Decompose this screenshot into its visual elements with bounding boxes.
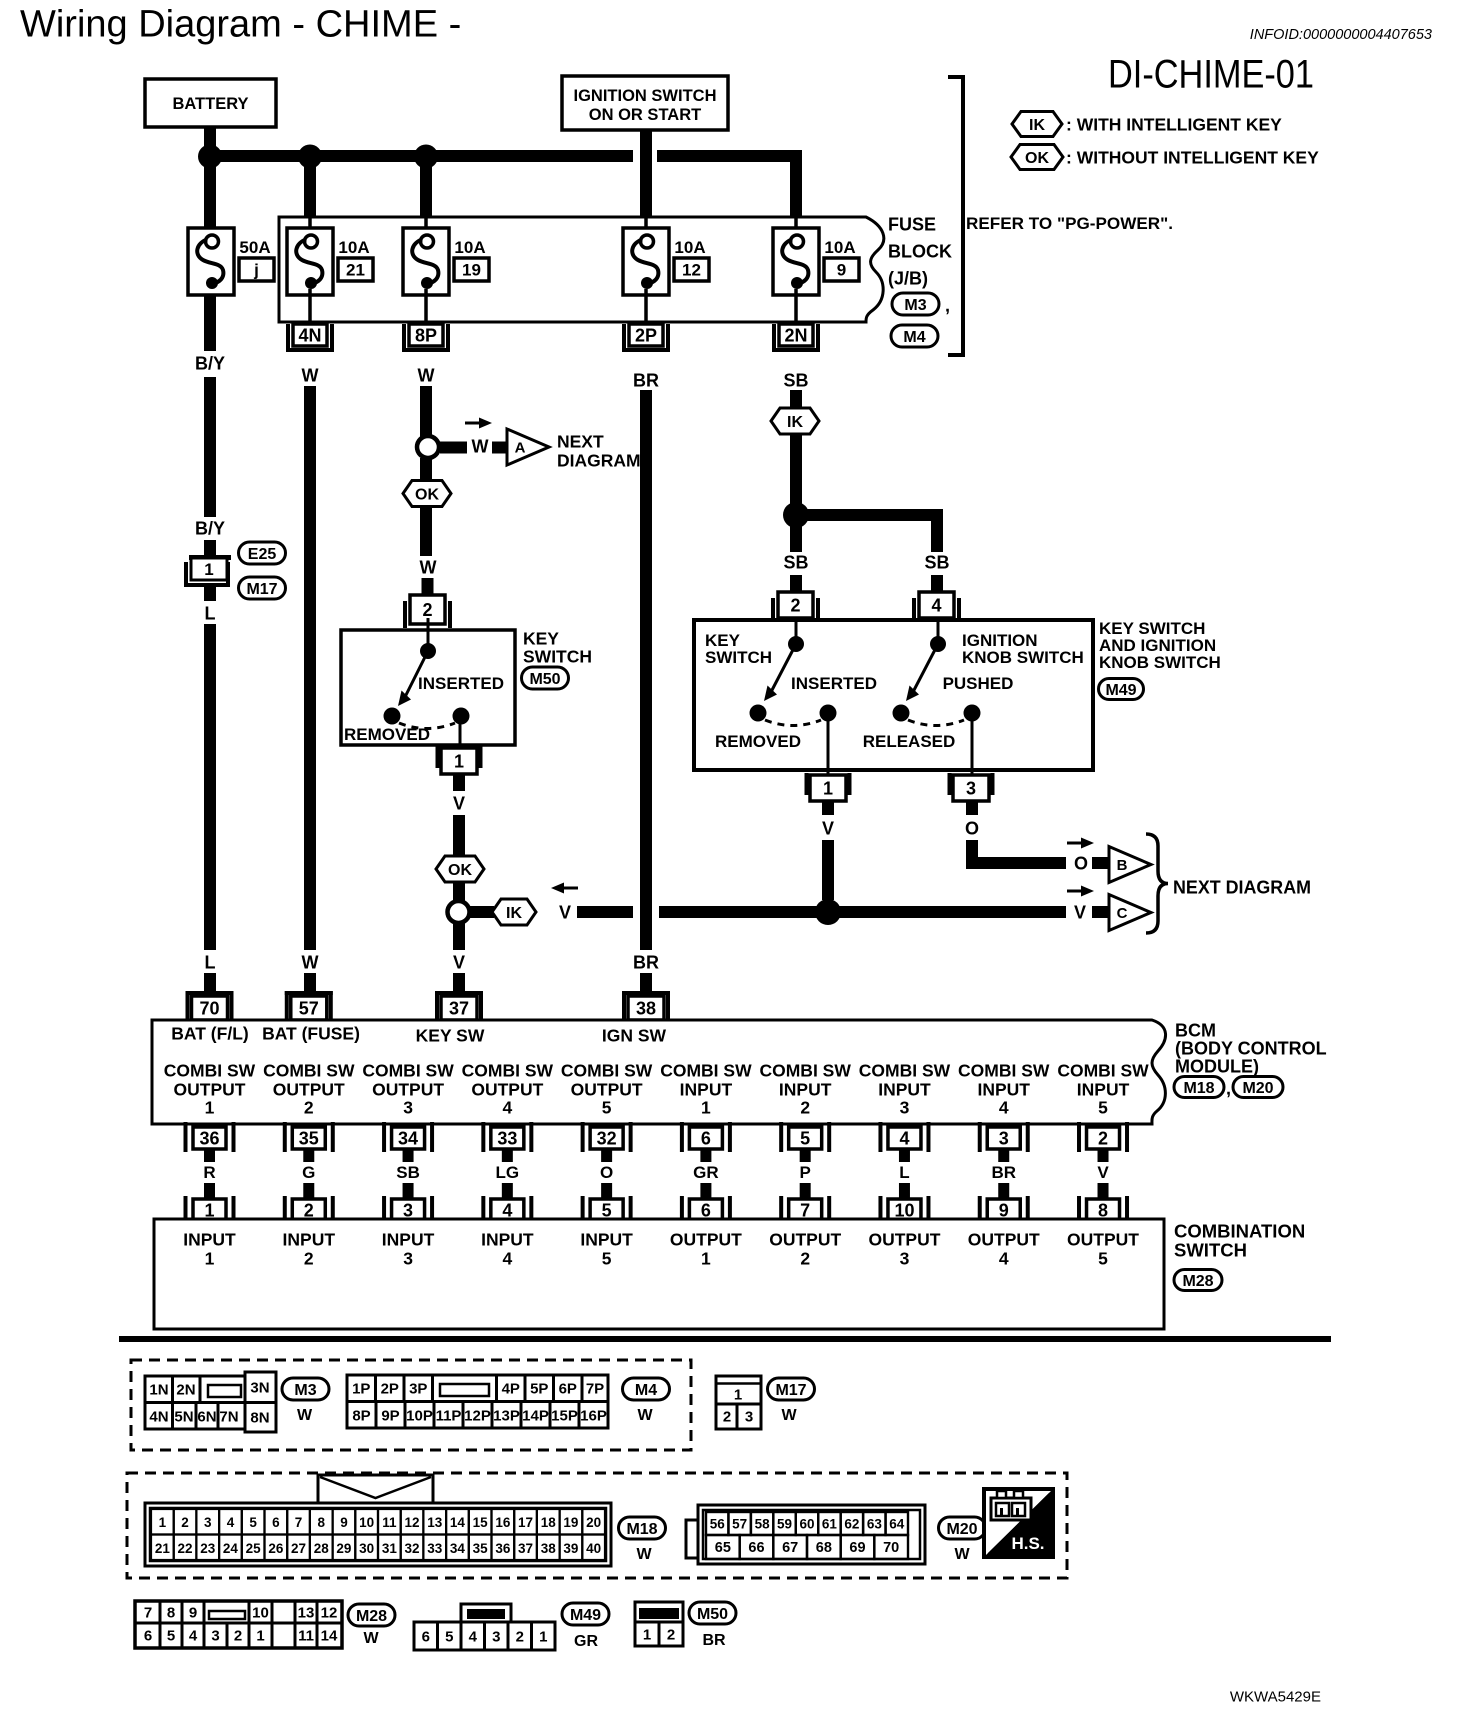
wire V horizontal left segment <box>577 906 633 918</box>
wire IK to junction <box>790 433 802 515</box>
junction bus battery <box>198 145 222 169</box>
connector 1 M49 <box>805 773 852 801</box>
svg-text:1: 1 <box>539 1628 547 1645</box>
svg-text:20: 20 <box>586 1515 601 1530</box>
wire stub below pin 35 <box>303 1149 314 1162</box>
fuse 19 output lead <box>424 289 428 326</box>
arrow next diagram B <box>1067 838 1094 849</box>
wire SB down to connector 2 <box>790 515 802 552</box>
svg-text:W: W <box>781 1407 797 1424</box>
wire stub above pin 9 <box>998 1183 1009 1199</box>
key switch output lead <box>459 718 462 747</box>
svg-text:21: 21 <box>155 1541 171 1556</box>
svg-text:B: B <box>1117 857 1128 874</box>
svg-text:11P: 11P <box>436 1407 462 1424</box>
svg-text:56: 56 <box>710 1516 726 1531</box>
svg-text:INPUT: INPUT <box>283 1229 336 1249</box>
wire O down <box>966 840 978 869</box>
svg-text:12: 12 <box>682 261 701 280</box>
svg-text:16P: 16P <box>580 1407 607 1424</box>
wire label W branch <box>472 437 489 457</box>
wire fuse21 feed <box>304 163 316 219</box>
BCM pin 2 <box>1077 1122 1129 1152</box>
connector face M50 face <box>635 1602 683 1646</box>
svg-text:COMBI SW: COMBI SW <box>958 1060 1050 1080</box>
wire stub above pin 8 <box>1098 1183 1109 1199</box>
svg-text:27: 27 <box>291 1541 306 1556</box>
svg-text:2: 2 <box>181 1515 189 1530</box>
svg-text:5: 5 <box>1098 1097 1108 1117</box>
fuse block label <box>888 215 952 289</box>
connector 2N <box>772 324 820 352</box>
BCM pin name BAT (F/L) <box>171 1023 248 1043</box>
key switch internal lead <box>427 618 430 648</box>
svg-text:1: 1 <box>204 560 213 579</box>
combination switch label INPUT 3 <box>382 1229 435 1268</box>
svg-text:M20: M20 <box>946 1521 977 1538</box>
combination switch side label <box>1174 1221 1305 1261</box>
connector ref M28 side <box>1174 1270 1222 1291</box>
svg-text:59: 59 <box>777 1516 792 1531</box>
BCM pin 5 <box>779 1122 831 1152</box>
svg-text:34: 34 <box>450 1541 466 1556</box>
svg-text:22: 22 <box>178 1541 193 1556</box>
wire stub above pin 7 <box>800 1183 811 1199</box>
fuse 10A 19 <box>403 217 489 295</box>
OK option symbol col3 <box>403 481 451 507</box>
BCM pin 35 <box>283 1122 335 1152</box>
svg-text:INPUT: INPUT <box>680 1079 733 1099</box>
svg-text:INPUT: INPUT <box>481 1229 534 1249</box>
svg-text:11: 11 <box>298 1627 314 1644</box>
M49 output lead 3 <box>971 718 974 777</box>
svg-text:M49: M49 <box>1105 682 1136 699</box>
svg-text:37: 37 <box>449 999 469 1019</box>
svg-text:A: A <box>515 439 526 456</box>
connector ref M50 component <box>522 667 569 689</box>
svg-text:W: W <box>363 1630 379 1647</box>
svg-text:35: 35 <box>473 1541 489 1556</box>
svg-text:3: 3 <box>900 1097 910 1117</box>
wire below circle V <box>453 923 465 950</box>
BCM pin 32 <box>581 1122 633 1152</box>
wire stub above pin 10 <box>899 1183 910 1199</box>
svg-text:: WITHOUT INTELLIGENT KEY: : WITHOUT INTELLIGENT KEY <box>1066 147 1319 167</box>
M49 PUSHED label <box>943 674 1014 693</box>
connector face M20 <box>686 1505 925 1564</box>
svg-text:SWITCH: SWITCH <box>1174 1240 1247 1261</box>
svg-text:2N: 2N <box>176 1381 195 1398</box>
connector ref M4 <box>891 325 938 347</box>
svg-text:BAT (F/L): BAT (F/L) <box>171 1023 248 1043</box>
combination switch label OUTPUT 5 <box>1067 1229 1139 1268</box>
legend OK symbol <box>1011 145 1063 170</box>
svg-text:1: 1 <box>643 1626 651 1643</box>
wire stub above pin 1 <box>204 1183 215 1199</box>
M49 key blade <box>764 644 796 701</box>
wire label O right <box>1074 854 1088 874</box>
svg-text:39: 39 <box>563 1541 578 1556</box>
svg-text:R: R <box>203 1163 215 1182</box>
svg-text:SB: SB <box>396 1163 420 1182</box>
svg-text:COMBI SW: COMBI SW <box>1057 1060 1149 1080</box>
svg-text:REFER TO "PG-POWER".: REFER TO "PG-POWER". <box>966 214 1173 233</box>
wire label SB left branch <box>783 553 808 573</box>
junction V wire <box>815 899 841 925</box>
BCM side label <box>1175 1021 1327 1077</box>
svg-text:4: 4 <box>227 1515 235 1530</box>
svg-text:50A: 50A <box>239 238 270 257</box>
wire below M49 connector 1 <box>822 801 834 815</box>
svg-text:G: G <box>302 1163 315 1182</box>
svg-text:10: 10 <box>252 1604 269 1621</box>
connector ref M20 face <box>939 1517 986 1563</box>
dashed group box M18 M20 <box>127 1473 1067 1578</box>
svg-text:57: 57 <box>732 1516 747 1531</box>
svg-text:V: V <box>453 953 465 973</box>
key switch REMOVED label <box>344 725 430 744</box>
title <box>20 4 461 46</box>
legend OK text <box>1066 147 1319 167</box>
wire label SB right branch <box>924 553 949 573</box>
svg-text:W: W <box>472 437 489 457</box>
svg-text:M50: M50 <box>529 671 560 688</box>
wire label BR upper <box>633 371 659 391</box>
svg-text:3: 3 <box>900 1248 910 1268</box>
wire label O M49 <box>965 819 979 839</box>
svg-text:INPUT: INPUT <box>977 1079 1030 1099</box>
svg-text:NEXT: NEXT <box>557 431 604 451</box>
svg-text:M49: M49 <box>570 1607 601 1624</box>
svg-text:1: 1 <box>205 1248 215 1268</box>
svg-text:4P: 4P <box>502 1380 520 1397</box>
svg-text:1: 1 <box>454 752 464 772</box>
svg-text:15P: 15P <box>551 1407 578 1424</box>
svg-text:63: 63 <box>867 1516 883 1531</box>
svg-text:INPUT: INPUT <box>382 1229 435 1249</box>
svg-text:10P: 10P <box>406 1407 433 1424</box>
key switch REMOVED contact <box>384 708 401 725</box>
M49 ignition knob label <box>962 631 1084 667</box>
BCM pin label COMBI SW INPUT 3 <box>859 1060 951 1117</box>
svg-text:5: 5 <box>602 1097 612 1117</box>
combination switch pin 3 <box>382 1196 434 1222</box>
svg-text:KEY: KEY <box>523 628 559 648</box>
svg-text:3: 3 <box>403 1248 413 1268</box>
svg-text:37: 37 <box>518 1541 533 1556</box>
svg-text:5: 5 <box>1098 1248 1108 1268</box>
BCM pin label COMBI SW INPUT 4 <box>958 1060 1050 1117</box>
svg-text:BR: BR <box>702 1632 726 1649</box>
svg-text:DI-CHIME-01: DI-CHIME-01 <box>1108 52 1314 96</box>
wire V to OK hex <box>453 815 465 857</box>
wire color label O <box>600 1163 613 1182</box>
svg-text:57: 57 <box>299 999 319 1019</box>
svg-text:COMBI SW: COMBI SW <box>759 1060 851 1080</box>
svg-text:C: C <box>1117 905 1128 922</box>
connector ref M4 face <box>623 1378 670 1424</box>
wire circle to IK hex <box>470 906 494 918</box>
svg-text:L: L <box>205 953 216 973</box>
connector 2 key switch <box>403 595 452 628</box>
connector face M49 face <box>414 1604 555 1650</box>
svg-text:INPUT: INPUT <box>1077 1079 1130 1099</box>
svg-text:OUTPUT: OUTPUT <box>372 1079 444 1099</box>
svg-text:1P: 1P <box>352 1380 370 1397</box>
svg-text:M18: M18 <box>1183 1080 1214 1097</box>
branch circle to next diagram A <box>417 436 439 458</box>
svg-text:W: W <box>297 1407 313 1424</box>
svg-text:10: 10 <box>359 1515 374 1530</box>
svg-text:: WITH INTELLIGENT KEY: : WITH INTELLIGENT KEY <box>1066 114 1282 134</box>
wire label V col3 <box>453 794 465 814</box>
svg-text:14P: 14P <box>522 1407 549 1424</box>
svg-text:OK: OK <box>1025 150 1049 167</box>
svg-text:IK: IK <box>506 905 522 922</box>
svg-text:5: 5 <box>249 1515 257 1530</box>
combination switch pin 2 <box>283 1196 335 1222</box>
svg-text:(J/B): (J/B) <box>888 269 928 289</box>
svg-text:26: 26 <box>268 1541 284 1556</box>
BCM pin label COMBI SW OUTPUT 1 <box>164 1060 256 1117</box>
svg-text:16: 16 <box>495 1515 511 1530</box>
svg-text:COMBI SW: COMBI SW <box>859 1060 951 1080</box>
wire W col2 to BCM <box>304 973 316 991</box>
inline connector 1 E25-M17 <box>184 555 231 587</box>
connector ref M3 face <box>282 1378 329 1424</box>
wire color label LG <box>496 1163 520 1182</box>
svg-text:35: 35 <box>299 1129 319 1149</box>
svg-text:1: 1 <box>205 1097 215 1117</box>
connector ref M17 face <box>768 1378 815 1424</box>
svg-text:4: 4 <box>189 1627 198 1644</box>
svg-text:9P: 9P <box>381 1407 399 1424</box>
svg-text:W: W <box>302 953 319 973</box>
fuse 9 output lead <box>794 289 798 326</box>
combination switch pin 1 <box>184 1196 236 1222</box>
connector ref M18 side <box>1174 1077 1231 1099</box>
BCM pin 6 <box>680 1122 732 1152</box>
svg-text:2: 2 <box>800 1248 810 1268</box>
M49 output lead 1 <box>827 718 830 777</box>
next diagram triangle B <box>1109 847 1151 883</box>
svg-text:38: 38 <box>541 1541 557 1556</box>
svg-text:33: 33 <box>427 1541 443 1556</box>
svg-text:33: 33 <box>497 1129 517 1149</box>
key switch blade <box>398 651 428 706</box>
svg-text:2: 2 <box>516 1628 524 1645</box>
wire label SB upper <box>783 371 808 391</box>
combination switch label OUTPUT 4 <box>968 1229 1040 1268</box>
svg-text:3P: 3P <box>409 1380 427 1397</box>
key switch INSERTED contact <box>453 708 470 725</box>
connector ref M20 side <box>1233 1077 1283 1098</box>
svg-text:6P: 6P <box>559 1380 577 1397</box>
M49 knob common contact <box>930 636 946 652</box>
BCM connector 38 <box>622 991 670 1020</box>
connector ref M49 component <box>1099 679 1144 700</box>
diagram id DI-CHIME-01 <box>1108 52 1314 96</box>
svg-text:60: 60 <box>799 1516 814 1531</box>
BCM connector 70 <box>186 991 234 1020</box>
svg-text:M28: M28 <box>356 1608 387 1625</box>
svg-text:13: 13 <box>298 1604 315 1621</box>
wire color label GR <box>693 1163 719 1182</box>
BCM connector 37 <box>435 991 483 1020</box>
M49 key common contact <box>788 636 804 652</box>
wire O to triangle B <box>1092 857 1109 869</box>
BCM pin 34 <box>382 1122 434 1152</box>
svg-text:ON OR START: ON OR START <box>589 106 701 124</box>
BCM pin name KEY SW <box>416 1025 485 1045</box>
svg-text:7: 7 <box>144 1604 152 1621</box>
wire color label SB <box>396 1163 420 1182</box>
connector 8P <box>402 324 450 352</box>
svg-text:M50: M50 <box>697 1606 728 1623</box>
svg-text:4: 4 <box>999 1248 1009 1268</box>
svg-text:L: L <box>899 1163 909 1182</box>
svg-text:1: 1 <box>256 1627 264 1644</box>
connector ref M3 <box>892 293 950 316</box>
wire stub above pin 3 <box>403 1183 414 1199</box>
svg-text:O: O <box>600 1163 613 1182</box>
wire W col2 to junction <box>304 386 316 950</box>
svg-text:62: 62 <box>844 1516 859 1531</box>
key switch label <box>523 628 592 666</box>
wire battery to bus <box>204 127 216 163</box>
svg-text:IGNITION SWITCH: IGNITION SWITCH <box>574 87 717 105</box>
junction bus fuse 21 <box>298 145 322 169</box>
svg-text:M17: M17 <box>246 581 277 598</box>
svg-text:OUTPUT: OUTPUT <box>571 1079 643 1099</box>
svg-text:11: 11 <box>382 1515 397 1530</box>
svg-text:L: L <box>205 604 216 624</box>
M49 knob dashed arc <box>908 720 964 726</box>
connector ref M49 face <box>562 1603 609 1650</box>
svg-text:M4: M4 <box>635 1382 657 1399</box>
M49 key switch label <box>705 631 772 667</box>
svg-text:IGN SW: IGN SW <box>602 1025 667 1045</box>
svg-text:(BODY CONTROL: (BODY CONTROL <box>1175 1039 1327 1059</box>
connector 4 M49 <box>912 592 961 618</box>
svg-text:V: V <box>1074 903 1086 923</box>
wire label V right <box>1074 903 1086 923</box>
svg-text:SB: SB <box>924 553 949 573</box>
svg-text:7P: 7P <box>586 1380 604 1397</box>
svg-text:10A: 10A <box>824 238 855 257</box>
combination switch pin 6 <box>680 1196 732 1222</box>
wire fuse j output B/Y <box>204 295 216 351</box>
svg-text:40: 40 <box>586 1541 601 1556</box>
infoid label <box>1250 27 1432 43</box>
combination switch label INPUT 5 <box>580 1229 633 1268</box>
svg-text:INPUT: INPUT <box>183 1229 236 1249</box>
svg-text:BATTERY: BATTERY <box>172 95 248 113</box>
wire OK hex down <box>420 506 432 556</box>
separator line <box>119 1336 1331 1342</box>
svg-text:2P: 2P <box>381 1380 399 1397</box>
svg-text:18: 18 <box>541 1515 557 1530</box>
M49 RELEASED label <box>863 732 956 751</box>
svg-text:1: 1 <box>701 1097 711 1117</box>
svg-text:10A: 10A <box>454 238 485 257</box>
svg-text:66: 66 <box>748 1540 764 1556</box>
junction bus fuse 19 <box>414 145 438 169</box>
legend IK symbol <box>1012 112 1062 137</box>
key switch dashed arc <box>399 723 455 729</box>
svg-text:2: 2 <box>234 1627 242 1644</box>
wire label W above key switch <box>420 558 437 578</box>
key switch box M50 <box>341 630 515 745</box>
BCM pin 36 <box>184 1122 236 1152</box>
wire label BR at BCM <box>633 953 659 973</box>
wire O horizontal <box>966 857 1066 869</box>
svg-text:64: 64 <box>889 1516 905 1531</box>
svg-text:,: , <box>1226 1079 1231 1099</box>
combination switch label OUTPUT 2 <box>769 1229 841 1268</box>
wire label W col2 at BCM <box>302 953 319 973</box>
wire stub below pin 3 <box>998 1149 1009 1162</box>
svg-text:6: 6 <box>144 1627 152 1644</box>
svg-text:LG: LG <box>496 1163 520 1182</box>
arrow from next diagram <box>551 883 578 894</box>
svg-text:3: 3 <box>966 779 976 799</box>
svg-text:12P: 12P <box>464 1407 491 1424</box>
refer bracket <box>948 75 965 357</box>
wire W to triangle A <box>492 442 509 454</box>
svg-text:38: 38 <box>636 999 656 1019</box>
svg-text:5N: 5N <box>174 1408 193 1425</box>
svg-text:OK: OK <box>415 486 439 503</box>
key switch and ignition knob switch box M49 <box>694 620 1093 770</box>
svg-text:M20: M20 <box>1242 1080 1273 1097</box>
svg-text:OUTPUT: OUTPUT <box>968 1229 1040 1249</box>
wire B/Y middle <box>204 377 216 517</box>
svg-text:36: 36 <box>199 1129 219 1149</box>
BCM pin 4 <box>878 1122 930 1152</box>
svg-text:9: 9 <box>837 261 846 280</box>
M49 released contact <box>893 705 910 722</box>
BCM pin label COMBI SW OUTPUT 5 <box>561 1060 653 1117</box>
combination switch pin 4 <box>481 1196 533 1222</box>
connector 3 M49 <box>948 773 995 801</box>
svg-text:INPUT: INPUT <box>779 1079 832 1099</box>
svg-text:V: V <box>559 903 571 923</box>
wire stub below pin 36 <box>204 1149 215 1162</box>
svg-text:68: 68 <box>816 1540 832 1556</box>
combination switch label OUTPUT 3 <box>868 1229 940 1268</box>
svg-text:1: 1 <box>159 1515 167 1530</box>
connector ref M50 face <box>689 1602 736 1649</box>
svg-text:8: 8 <box>167 1604 175 1621</box>
next diagram text A <box>557 431 641 470</box>
svg-text:W: W <box>636 1546 652 1563</box>
fuse 21 output lead <box>308 289 312 326</box>
svg-text:3: 3 <box>403 1097 413 1117</box>
svg-text:REMOVED: REMOVED <box>715 732 801 751</box>
BCM pin label COMBI SW INPUT 1 <box>660 1060 752 1117</box>
HS view emblem <box>984 1489 1053 1557</box>
connector face M3 <box>145 1372 276 1432</box>
svg-text:1N: 1N <box>149 1381 168 1398</box>
svg-text:OUTPUT: OUTPUT <box>868 1229 940 1249</box>
svg-text:SB: SB <box>783 553 808 573</box>
svg-text:29: 29 <box>336 1541 351 1556</box>
BCM pin 33 <box>481 1122 533 1152</box>
junction SB <box>783 502 809 528</box>
svg-text:17: 17 <box>518 1515 533 1530</box>
svg-text:M3: M3 <box>904 297 926 314</box>
